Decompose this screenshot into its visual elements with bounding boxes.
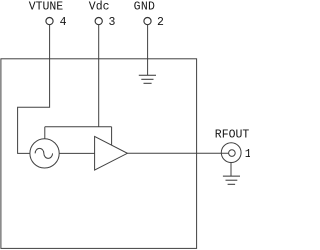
svg-text:VTUNE: VTUNE <box>29 1 64 14</box>
wire amplifier output to RFOUT connector <box>127 152 228 154</box>
wire oscillator to amplifier <box>59 152 94 154</box>
RFOUT coax connector inner circle <box>229 150 236 157</box>
svg-text:2: 2 <box>157 16 164 29</box>
block outline box <box>1 59 197 249</box>
amplifier triangle <box>95 136 128 170</box>
svg-text:4: 4 <box>60 16 67 29</box>
svg-text:RFOUT: RFOUT <box>215 128 250 141</box>
wire GND pin 2 down <box>147 25 149 76</box>
wire VTUNE pin 4 to oscillator input <box>18 25 50 154</box>
wire Vdc pin 3 down <box>98 25 100 127</box>
svg-text:1: 1 <box>245 148 250 161</box>
ground symbol below pin 2 <box>139 75 156 83</box>
oscillator sine wave <box>35 148 52 158</box>
svg-text:Vdc: Vdc <box>89 1 110 14</box>
RFOUT coax connector outer circle <box>221 143 241 163</box>
oscillator circle <box>30 139 59 168</box>
ground symbol below RFOUT connector <box>223 176 240 184</box>
pin 3 circle (Vdc) <box>95 18 102 25</box>
svg-text:GND: GND <box>134 1 156 14</box>
pin 2 circle (GND) <box>144 18 151 25</box>
pin 4 circle (VTUNE) <box>46 18 53 25</box>
wire rail to amplifier top <box>111 127 113 145</box>
wire connector to ground <box>230 163 232 177</box>
wire Vdc horizontal rail <box>45 126 112 128</box>
svg-text:3: 3 <box>108 16 115 29</box>
wire rail to oscillator top <box>44 127 46 139</box>
